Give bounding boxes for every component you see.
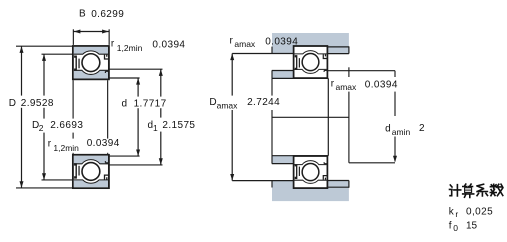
da level line [272,70,294,72]
axis line [272,116,349,118]
housing shoulder lip right [327,46,349,53]
svg-text:0: 0 [453,223,458,233]
svg-text:amax: amax [234,39,256,49]
d leader [109,155,140,157]
dimension line D2 [43,54,45,180]
D2 leader [42,179,73,181]
text d1 2.1575 [146,118,198,132]
housing band [272,33,349,47]
text ra max 0.0394 (middle) [329,77,398,92]
Damax arrow [230,54,234,61]
dimension line Damax [231,54,233,181]
svg-text:0.0394: 0.0394 [87,138,120,149]
shaft shoulder [272,156,294,164]
D leader [16,187,73,189]
text 计算系数 (calculation factors, drawn strokes) [450,184,503,197]
svg-text:0,025: 0,025 [466,207,493,218]
bearing section (upper) [73,46,109,79]
housing shoulder lip right [327,181,349,188]
svg-text:2: 2 [419,123,425,134]
Da leader / lip bottom [232,53,293,55]
housing bore line [294,186,349,188]
shoulder face line (between sections) [271,78,273,155]
svg-text:2.7244: 2.7244 [247,97,280,108]
svg-text:D: D [209,97,216,108]
leader lines lower (mirrored) [16,149,163,187]
mounted bearing section (lower) [294,156,328,188]
D2 leader [42,53,73,55]
housing bore line [294,46,349,48]
housing shoulder lip left [272,181,294,188]
dimension B [72,29,74,45]
Damax arrow [230,174,234,181]
svg-text:1,2min: 1,2min [117,43,143,53]
bore line left [72,80,74,154]
text Damax 2.7244 [208,96,281,110]
shaft surface [272,155,329,157]
svg-text:0.0394: 0.0394 [365,79,398,90]
d1 leader [109,68,163,70]
svg-text:d: d [385,124,391,135]
svg-text:2.1575: 2.1575 [162,120,195,131]
housing and shaft upper half [230,33,349,78]
svg-text:2: 2 [39,123,44,133]
text r1,2min 0.0394 (lower) [47,139,123,153]
dimension line d [137,78,139,156]
D leader [16,45,73,47]
svg-text:0.6299: 0.6299 [91,9,124,20]
right lip bottom [327,53,349,55]
svg-text:amin: amin [392,127,411,137]
shaft surface [272,77,329,79]
housing band [272,187,349,201]
svg-text:1,2min: 1,2min [53,143,79,153]
svg-text:f: f [449,220,452,231]
d leader [109,77,140,79]
da dimension line [394,71,396,162]
svg-text:0.0394: 0.0394 [265,36,298,47]
shaft shoulder [272,71,294,79]
ra tick / construction line [348,67,350,163]
da level line [272,163,294,165]
housing and shaft lower half (mirrored) [230,156,349,201]
svg-text:1: 1 [153,123,158,133]
svg-text:d: d [122,99,128,110]
right lip bottom [327,180,349,182]
shaft end face [327,78,329,155]
right lip face [348,46,350,53]
bearing section (lower, mirrored) [73,155,109,188]
right lip face [348,181,350,188]
text D 2.9528 [8,96,56,108]
housing shoulder lip left [272,46,294,53]
mounted bearing section (upper) [294,46,328,78]
text da min 2 [384,116,426,137]
Da leader / lip bottom [232,180,293,182]
dimension line B [73,31,109,33]
svg-text:0.0394: 0.0394 [152,39,185,50]
svg-text:D: D [9,98,16,109]
svg-text:amax: amax [217,100,239,110]
svg-text:1.7717: 1.7717 [134,99,167,110]
svg-text:r: r [455,209,458,219]
svg-text:15: 15 [466,221,478,232]
dimension line D [21,46,23,188]
text d 1.7717 [120,97,165,109]
leader lines upper [16,46,163,84]
svg-text:B: B [79,9,86,20]
dimension line d1 [160,69,162,165]
svg-text:2.9528: 2.9528 [21,98,54,109]
d1 leader [109,164,163,166]
svg-text:2.6693: 2.6693 [50,120,83,131]
text D2 2.6693 [31,119,86,133]
bore line right [107,80,109,154]
da leader [349,162,395,164]
svg-text:amax: amax [336,82,358,92]
da arrow [393,156,397,163]
ra leader [327,70,395,72]
